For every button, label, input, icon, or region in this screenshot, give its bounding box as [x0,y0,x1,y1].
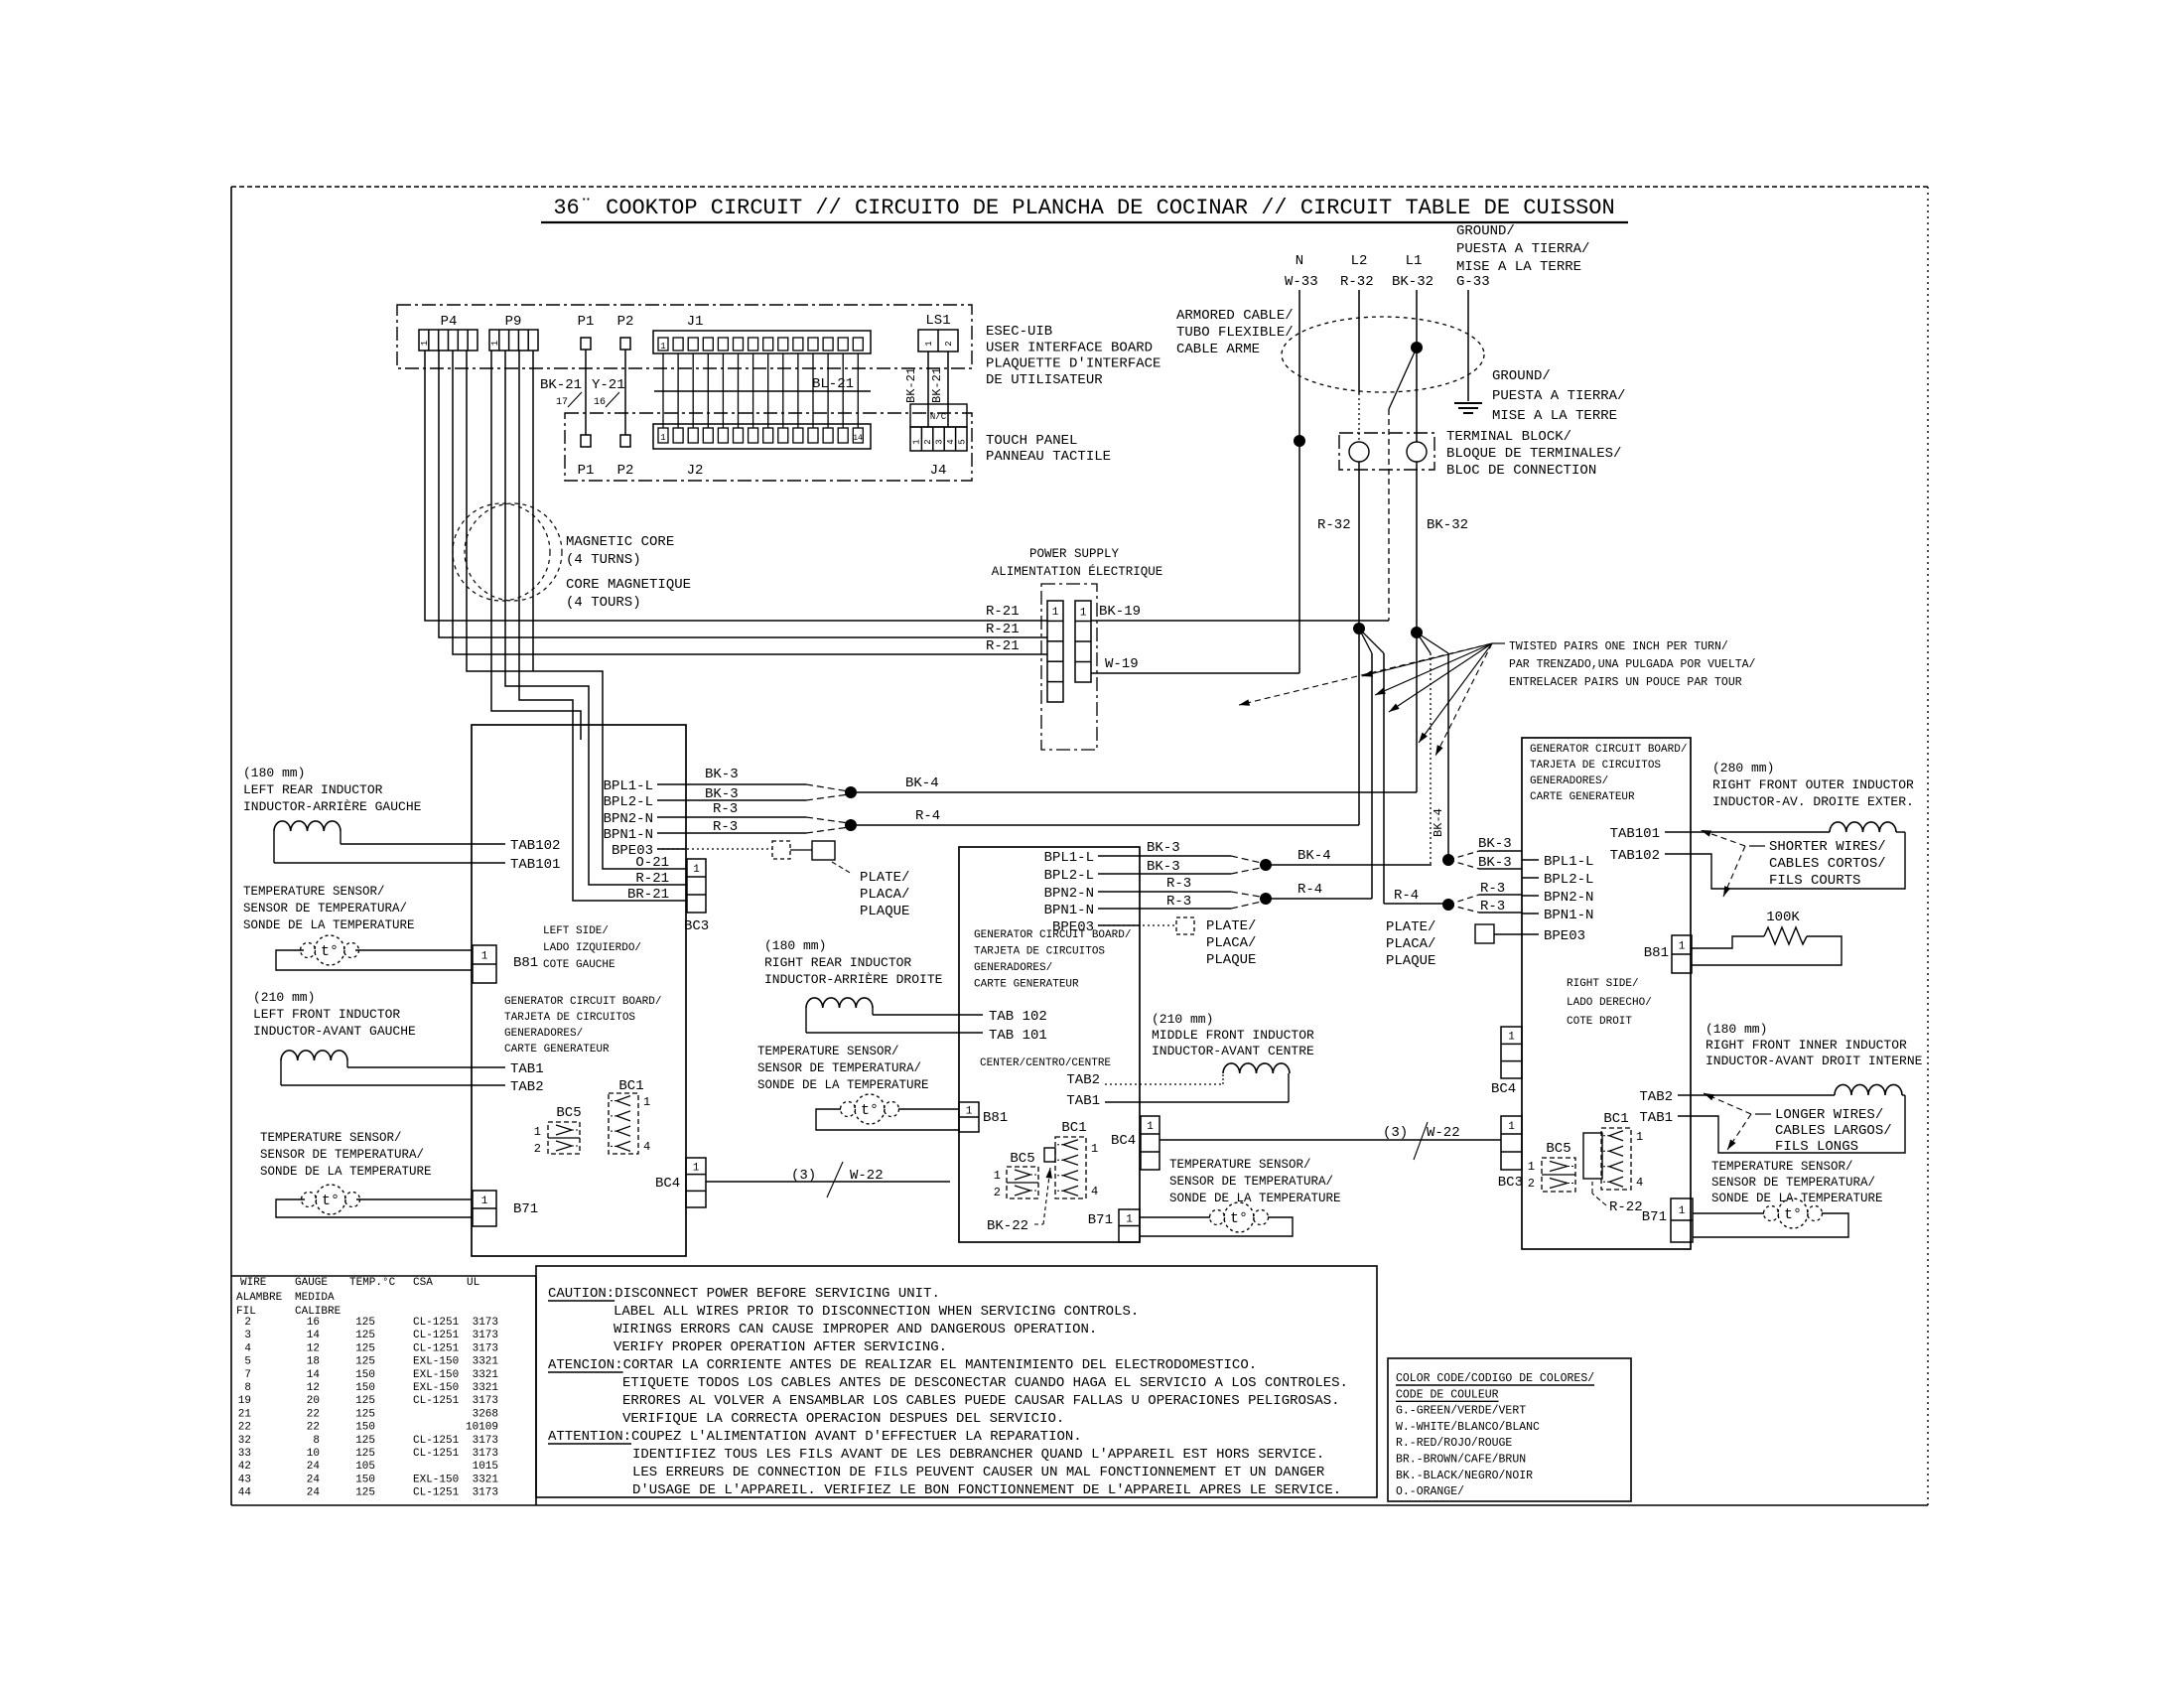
svg-text:LABEL ALL WIRES PRIOR TO DISCO: LABEL ALL WIRES PRIOR TO DISCONNECTION W… [614,1304,1139,1320]
svg-text:BC3: BC3 [1498,1175,1523,1191]
svg-text:BC4: BC4 [655,1176,680,1192]
svg-text:32: 32 [238,1435,251,1447]
svg-text:B71: B71 [1642,1209,1667,1225]
svg-text:W-33: W-33 [1285,274,1318,290]
svg-text:SONDE DE LA TEMPERATURE: SONDE DE LA TEMPERATURE [243,918,415,932]
svg-text:BLOQUE DE TERMINALES/: BLOQUE DE TERMINALES/ [1446,446,1621,462]
svg-text:PANNEAU TACTILE: PANNEAU TACTILE [986,449,1111,465]
svg-text:19: 19 [238,1395,251,1407]
svg-text:R-32: R-32 [1317,517,1351,533]
svg-text:PLAQUE: PLAQUE [860,904,909,919]
svg-text:TAB1: TAB1 [1639,1110,1673,1126]
svg-text:BK-21: BK-21 [904,367,918,403]
svg-text:BK-3: BK-3 [705,786,739,802]
svg-text:Y-21: Y-21 [592,377,625,393]
svg-text:1: 1 [994,1169,1001,1183]
svg-text:RIGHT SIDE/: RIGHT SIDE/ [1567,978,1639,990]
svg-text:PLACA/: PLACA/ [1206,935,1256,951]
svg-text:TEMPERATURE SENSOR/: TEMPERATURE SENSOR/ [260,1131,402,1145]
svg-text:ALIMENTATION ÉLECTRIQUE: ALIMENTATION ÉLECTRIQUE [992,564,1163,579]
svg-text:TEMPERATURE SENSOR/: TEMPERATURE SENSOR/ [1711,1160,1853,1174]
svg-text:16: 16 [594,397,606,408]
svg-text:R-3: R-3 [1480,881,1505,897]
svg-text:4: 4 [1636,1176,1643,1190]
svg-text:1: 1 [1126,1213,1133,1225]
svg-text:R-3: R-3 [1166,876,1191,892]
svg-text:W-19: W-19 [1105,656,1139,672]
svg-text:SONDE DE LA TEMPERATURE: SONDE DE LA TEMPERATURE [1169,1192,1341,1205]
svg-text:BR-21: BR-21 [627,887,669,903]
svg-text:R-21: R-21 [986,622,1020,637]
svg-text:22: 22 [307,1408,320,1420]
svg-text:BPN1-N: BPN1-N [1044,903,1094,918]
svg-text:R-3: R-3 [1166,894,1191,910]
svg-text:BK-4: BK-4 [905,775,939,791]
svg-text:LES ERREURS DE CONNECTION DE F: LES ERREURS DE CONNECTION DE FILS PEUVEN… [632,1465,1325,1480]
svg-text:LADO DERECHO/: LADO DERECHO/ [1567,997,1652,1009]
svg-text:BPN2-N: BPN2-N [1044,886,1094,902]
svg-text:BC1: BC1 [1603,1111,1628,1127]
svg-text:FILS LONGS: FILS LONGS [1775,1139,1858,1155]
svg-text:TOUCH PANEL: TOUCH PANEL [986,433,1077,449]
svg-text:TARJETA DE CIRCUITOS: TARJETA DE CIRCUITOS [974,946,1105,958]
svg-text:4: 4 [946,439,956,444]
svg-text:3173: 3173 [473,1342,498,1354]
svg-text:W.-WHITE/BLANCO/BLANC: W.-WHITE/BLANCO/BLANC [1396,1421,1540,1434]
svg-text:TEMP.°C: TEMP.°C [349,1277,396,1289]
svg-text:PLATE/: PLATE/ [1206,918,1256,934]
svg-text:BPL1-L: BPL1-L [1044,850,1094,866]
svg-text:PLAQUETTE D'INTERFACE: PLAQUETTE D'INTERFACE [986,356,1160,372]
svg-text:PLAQUE: PLAQUE [1386,953,1435,969]
svg-text:12: 12 [307,1382,320,1394]
svg-text:24: 24 [307,1487,321,1499]
svg-text:CL-1251: CL-1251 [413,1435,460,1447]
svg-text:J4: J4 [930,463,947,479]
svg-text:COLOR CODE/CODIGO DE COLORES/: COLOR CODE/CODIGO DE COLORES/ [1396,1372,1594,1385]
svg-text:GENERADORES/: GENERADORES/ [504,1028,583,1040]
svg-text:R-21: R-21 [986,638,1020,654]
svg-text:2: 2 [1528,1177,1535,1191]
svg-text:R-4: R-4 [915,808,940,824]
svg-text:1: 1 [693,1162,700,1174]
svg-text:BPN2-N: BPN2-N [604,811,653,827]
svg-text:3321: 3321 [473,1356,499,1368]
svg-text:COTE DROIT: COTE DROIT [1567,1016,1632,1028]
svg-text:16: 16 [307,1317,320,1329]
svg-text:LEFT REAR INDUCTOR: LEFT REAR INDUCTOR [243,782,383,797]
svg-text:(210 mm): (210 mm) [1152,1012,1213,1027]
svg-text:BPL2-L: BPL2-L [1544,872,1593,888]
svg-text:TAB101: TAB101 [1610,826,1660,842]
svg-text:R.-RED/ROJO/ROUGE: R.-RED/ROJO/ROUGE [1396,1437,1512,1450]
svg-text:125: 125 [355,1448,375,1460]
svg-text:3173: 3173 [473,1395,498,1407]
svg-text:CARTE GENERATEUR: CARTE GENERATEUR [504,1044,610,1055]
svg-text:ESEC-UIB: ESEC-UIB [986,324,1052,340]
svg-text:43: 43 [238,1474,251,1485]
svg-text:ALAMBRE: ALAMBRE [236,1292,283,1304]
svg-text:POWER SUPPLY: POWER SUPPLY [1029,547,1120,561]
svg-text:3321: 3321 [473,1369,499,1381]
svg-text:2: 2 [994,1186,1001,1199]
svg-text:125: 125 [355,1342,375,1354]
svg-text:4: 4 [244,1342,251,1354]
svg-text:1: 1 [1528,1160,1535,1174]
svg-text:PLACA/: PLACA/ [860,887,909,903]
svg-text:8: 8 [244,1382,251,1394]
svg-text:3173: 3173 [473,1330,498,1341]
svg-text:18: 18 [307,1356,320,1368]
svg-text:R-32: R-32 [1340,274,1374,290]
svg-text:EXL-150: EXL-150 [413,1382,459,1394]
svg-text:125: 125 [355,1356,375,1368]
svg-text:INDUCTOR-AVANT GAUCHE: INDUCTOR-AVANT GAUCHE [253,1024,416,1039]
svg-text:P2: P2 [617,314,634,330]
svg-text:N: N [1296,253,1303,269]
svg-text:TAB2: TAB2 [510,1079,544,1095]
svg-text:INDUCTOR-AVANT DROIT INTERNE: INDUCTOR-AVANT DROIT INTERNE [1706,1054,1923,1068]
svg-text:BC5: BC5 [1546,1141,1570,1157]
svg-text:BC5: BC5 [1010,1151,1034,1167]
svg-text:GROUND/: GROUND/ [1492,368,1551,384]
svg-text:2: 2 [534,1142,541,1156]
svg-text:W-22: W-22 [1427,1125,1460,1141]
svg-text:14: 14 [853,434,863,443]
svg-text:BK.-BLACK/NEGRO/NOIR: BK.-BLACK/NEGRO/NOIR [1396,1470,1533,1482]
svg-text:BL-21: BL-21 [812,376,854,392]
svg-text:CARTE GENERATEUR: CARTE GENERATEUR [1530,791,1635,803]
svg-text:(180 mm): (180 mm) [243,766,305,780]
svg-text:1: 1 [1508,1121,1515,1133]
svg-text:14: 14 [307,1369,321,1381]
svg-text:P2: P2 [617,463,634,479]
svg-text:1: 1 [1147,1121,1154,1133]
svg-text:MEDIDA: MEDIDA [295,1292,335,1304]
svg-text:1: 1 [1091,1142,1098,1156]
svg-text:P1: P1 [578,463,595,479]
svg-text:R-4: R-4 [1394,888,1419,904]
svg-text:1: 1 [420,341,430,346]
svg-text:TAB2: TAB2 [1066,1072,1100,1088]
svg-text:INDUCTOR-AV. DROITE EXTER.: INDUCTOR-AV. DROITE EXTER. [1712,794,1914,809]
svg-text:BC4: BC4 [1491,1081,1516,1097]
svg-text:TAB102: TAB102 [1610,848,1660,864]
svg-text:SENSOR DE TEMPERATURA/: SENSOR DE TEMPERATURA/ [1169,1175,1333,1189]
svg-text:22: 22 [307,1422,320,1434]
svg-text:1015: 1015 [473,1461,498,1473]
svg-text:VERIFY PROPER OPERATION AFTER: VERIFY PROPER OPERATION AFTER SERVICING. [614,1339,947,1355]
svg-text:10: 10 [307,1448,320,1460]
svg-text:GROUND/: GROUND/ [1456,223,1515,239]
svg-text:ARMORED CABLE/: ARMORED CABLE/ [1176,308,1294,324]
svg-text:MIDDLE FRONT INDUCTOR: MIDDLE FRONT INDUCTOR [1152,1028,1314,1043]
svg-text:150: 150 [355,1474,375,1485]
svg-text:B71: B71 [513,1201,538,1217]
svg-text:UL: UL [467,1277,479,1289]
svg-text:22: 22 [238,1422,251,1434]
svg-text:COTE GAUCHE: COTE GAUCHE [543,959,615,971]
svg-text:INDUCTOR-ARRIÈRE GAUCHE: INDUCTOR-ARRIÈRE GAUCHE [243,799,422,814]
svg-text:3268: 3268 [473,1408,498,1420]
svg-text:2: 2 [923,439,933,444]
svg-text:MISE A LA TERRE: MISE A LA TERRE [1456,259,1581,275]
svg-text:BC3: BC3 [684,918,709,934]
svg-text:LEFT FRONT INDUCTOR: LEFT FRONT INDUCTOR [253,1007,400,1022]
svg-text:7: 7 [244,1369,251,1381]
svg-text:PAR TRENZADO,UNA PULGADA POR V: PAR TRENZADO,UNA PULGADA POR VUELTA/ [1509,658,1756,671]
svg-text:BK-22: BK-22 [987,1218,1028,1234]
svg-text:FILS COURTS: FILS COURTS [1769,873,1860,889]
svg-text:PLAQUE: PLAQUE [1206,952,1256,968]
svg-text:L2: L2 [1351,253,1368,269]
svg-text:1: 1 [924,341,934,346]
svg-text:GENERATOR CIRCUIT BOARD/: GENERATOR CIRCUIT BOARD/ [504,996,661,1008]
svg-text:WIRINGS ERRORS CAN CAUSE IMPRO: WIRINGS ERRORS CAN CAUSE IMPROPER AND DA… [614,1322,1097,1337]
svg-text:MISE A LA TERRE: MISE A LA TERRE [1492,408,1617,424]
svg-text:125: 125 [355,1408,375,1420]
svg-text:R-3: R-3 [1480,899,1505,914]
svg-text:BC1: BC1 [1061,1120,1086,1136]
svg-text:N/C: N/C [930,412,947,422]
svg-text:D'USAGE DE L'APPAREIL. VERIFIE: D'USAGE DE L'APPAREIL. VERIFIEZ LE BON F… [632,1482,1341,1498]
svg-text:W-22: W-22 [850,1168,884,1184]
svg-text:G-33: G-33 [1456,274,1490,290]
svg-text:5: 5 [957,439,967,444]
svg-text:BPL1-L: BPL1-L [1544,854,1593,870]
svg-text:3321: 3321 [473,1382,499,1394]
svg-text:1: 1 [534,1125,541,1139]
svg-text:BK-3: BK-3 [1478,855,1512,871]
svg-text:t°: t° [1230,1210,1248,1227]
svg-text:BK-4: BK-4 [1432,808,1445,837]
svg-text:SONDE DE LA TEMPERATURE: SONDE DE LA TEMPERATURE [757,1078,929,1092]
svg-text:P1: P1 [578,314,595,330]
svg-text:TAB1: TAB1 [1066,1093,1100,1109]
svg-text:3173: 3173 [473,1317,498,1329]
svg-text:1: 1 [660,342,665,352]
svg-text:1: 1 [660,433,665,443]
svg-text:EXL-150: EXL-150 [413,1369,459,1381]
svg-text:(180 mm): (180 mm) [764,938,826,953]
svg-text:TAB 101: TAB 101 [989,1028,1047,1044]
svg-text:TARJETA DE CIRCUITOS: TARJETA DE CIRCUITOS [504,1012,635,1024]
svg-text:CAUTION:DISCONNECT POWER BEFOR: CAUTION:DISCONNECT POWER BEFORE SERVICIN… [548,1286,940,1302]
svg-text:MAGNETIC CORE: MAGNETIC CORE [566,534,674,550]
svg-text:t°: t° [1784,1206,1802,1223]
svg-text:CL-1251: CL-1251 [413,1330,460,1341]
svg-text:LEFT SIDE/: LEFT SIDE/ [543,925,609,937]
svg-text:4: 4 [643,1140,650,1154]
svg-text:(3): (3) [791,1168,816,1184]
svg-text:BK-3: BK-3 [1147,840,1180,856]
svg-text:EXL-150: EXL-150 [413,1474,459,1485]
svg-text:SENSOR DE TEMPERATURA/: SENSOR DE TEMPERATURA/ [1711,1176,1875,1190]
svg-text:BK-21: BK-21 [540,377,582,393]
svg-text:INDUCTOR-AVANT CENTRE: INDUCTOR-AVANT CENTRE [1152,1044,1314,1058]
svg-text:1: 1 [966,1106,973,1118]
svg-text:SENSOR DE TEMPERATURA/: SENSOR DE TEMPERATURA/ [757,1061,921,1075]
svg-text:CL-1251: CL-1251 [413,1448,460,1460]
svg-text:1: 1 [1636,1130,1643,1144]
svg-text:36¨ COOKTOP CIRCUIT // CIRCUIT: 36¨ COOKTOP CIRCUIT // CIRCUITO DE PLANC… [553,196,1614,220]
svg-text:DE UTILISATEUR: DE UTILISATEUR [986,372,1103,388]
svg-text:B81: B81 [983,1110,1008,1126]
svg-text:CABLE ARME: CABLE ARME [1176,342,1260,357]
svg-text:125: 125 [355,1487,375,1499]
svg-text:RIGHT FRONT OUTER INDUCTOR: RIGHT FRONT OUTER INDUCTOR [1712,777,1914,792]
svg-text:1: 1 [1080,607,1087,619]
svg-text:3321: 3321 [473,1474,499,1485]
svg-text:42: 42 [238,1461,251,1473]
svg-text:(4 TURNS): (4 TURNS) [566,552,641,568]
svg-text:ENTRELACER PAIRS UN POUCE PAR: ENTRELACER PAIRS UN POUCE PAR TOUR [1509,676,1742,689]
svg-text:ATTENTION:COUPEZ L'ALIMENTATIO: ATTENTION:COUPEZ L'ALIMENTATION AVANT D'… [548,1429,1082,1445]
svg-text:CL-1251: CL-1251 [413,1395,460,1407]
svg-text:J1: J1 [687,314,704,330]
svg-text:L1: L1 [1406,253,1423,269]
svg-text:125: 125 [355,1330,375,1341]
svg-text:GENERATOR CIRCUIT BOARD/: GENERATOR CIRCUIT BOARD/ [974,929,1131,941]
svg-text:CL-1251: CL-1251 [413,1487,460,1499]
svg-text:J2: J2 [687,463,704,479]
svg-text:BK-3: BK-3 [705,767,739,782]
svg-text:TARJETA DE CIRCUITOS: TARJETA DE CIRCUITOS [1530,760,1661,772]
svg-text:EXL-150: EXL-150 [413,1356,459,1368]
svg-text:1: 1 [490,341,500,346]
svg-text:BPL2-L: BPL2-L [604,794,653,810]
svg-text:SHORTER WIRES/: SHORTER WIRES/ [1769,839,1886,855]
svg-text:3173: 3173 [473,1448,498,1460]
svg-text:BK-4: BK-4 [1297,848,1331,864]
svg-text:105: 105 [355,1461,375,1473]
svg-text:PUESTA A TIERRA/: PUESTA A TIERRA/ [1456,241,1589,257]
svg-text:VERIFIQUE LA CORRECTA OPERACIO: VERIFIQUE LA CORRECTA OPERACION DESPUES … [622,1411,1064,1427]
svg-text:150: 150 [355,1422,375,1434]
svg-text:1: 1 [1679,1205,1686,1217]
svg-text:BK-3: BK-3 [1478,836,1512,852]
svg-text:5: 5 [244,1356,251,1368]
svg-text:1: 1 [643,1095,650,1109]
svg-text:2: 2 [244,1317,251,1329]
svg-text:O.-ORANGE/: O.-ORANGE/ [1396,1485,1464,1498]
svg-text:BPN2-N: BPN2-N [1544,890,1593,906]
svg-text:BPL1-L: BPL1-L [604,778,653,794]
svg-text:PLATE/: PLATE/ [860,870,909,886]
svg-text:BLOC DE CONNECTION: BLOC DE CONNECTION [1446,463,1596,479]
svg-text:B81: B81 [1644,945,1669,961]
svg-text:R-22: R-22 [1609,1199,1643,1215]
svg-text:t°: t° [321,943,339,960]
svg-text:33: 33 [238,1448,251,1460]
svg-text:CODE DE COULEUR: CODE DE COULEUR [1396,1388,1499,1401]
svg-text:100K: 100K [1766,910,1800,925]
svg-text:10109: 10109 [466,1422,498,1434]
svg-text:B71: B71 [1088,1212,1113,1228]
svg-text:R-21: R-21 [986,604,1020,620]
svg-text:CARTE GENERATEUR: CARTE GENERATEUR [974,979,1079,991]
svg-text:TWISTED PAIRS ONE INCH PER TUR: TWISTED PAIRS ONE INCH PER TURN/ [1509,640,1728,653]
svg-text:ATENCION:CORTAR LA CORRIENTE A: ATENCION:CORTAR LA CORRIENTE ANTES DE RE… [548,1357,1257,1373]
svg-text:3: 3 [244,1330,251,1341]
svg-text:RIGHT REAR INDUCTOR: RIGHT REAR INDUCTOR [764,955,911,970]
svg-text:TAB 102: TAB 102 [989,1009,1047,1025]
svg-text:1: 1 [481,951,488,963]
svg-text:BPN1-N: BPN1-N [604,827,653,843]
svg-text:CENTER/CENTRO/CENTRE: CENTER/CENTRO/CENTRE [980,1057,1111,1069]
svg-text:BK-32: BK-32 [1427,517,1468,533]
svg-text:BPL2-L: BPL2-L [1044,868,1094,884]
svg-text:PUESTA A TIERRA/: PUESTA A TIERRA/ [1492,388,1625,404]
svg-text:125: 125 [355,1395,375,1407]
svg-text:12: 12 [307,1342,320,1354]
svg-text:BPE03: BPE03 [1544,928,1585,944]
svg-text:BC4: BC4 [1111,1133,1136,1149]
svg-text:LS1: LS1 [925,313,950,329]
svg-text:PLACA/: PLACA/ [1386,936,1435,952]
svg-text:24: 24 [307,1461,321,1473]
svg-text:ERRORES AL VOLVER A ENSAMBLAR: ERRORES AL VOLVER A ENSAMBLAR LOS CABLES… [622,1393,1340,1409]
svg-text:SONDE DE LA TEMPERATURE: SONDE DE LA TEMPERATURE [260,1165,432,1179]
svg-text:R-3: R-3 [713,801,738,817]
svg-text:P4: P4 [441,314,458,330]
svg-text:125: 125 [355,1435,375,1447]
svg-text:BK-3: BK-3 [1147,859,1180,875]
svg-text:3173: 3173 [473,1487,498,1499]
svg-text:LONGER WIRES/: LONGER WIRES/ [1775,1107,1883,1123]
svg-text:LADO IZQUIERDO/: LADO IZQUIERDO/ [543,942,641,954]
svg-text:O-21: O-21 [635,855,669,871]
svg-text:21: 21 [238,1408,252,1420]
svg-text:PLATE/: PLATE/ [1386,919,1435,935]
svg-text:INDUCTOR-ARRIÈRE DROITE: INDUCTOR-ARRIÈRE DROITE [764,972,943,987]
svg-text:BK-19: BK-19 [1099,604,1141,620]
svg-text:4: 4 [1091,1185,1098,1198]
svg-text:(4 TOURS): (4 TOURS) [566,595,641,611]
svg-text:BK-21: BK-21 [930,367,944,403]
svg-text:(280 mm): (280 mm) [1712,761,1774,775]
svg-text:14: 14 [307,1330,321,1341]
svg-text:20: 20 [307,1395,320,1407]
svg-text:TAB2: TAB2 [1639,1089,1673,1105]
svg-text:G.-GREEN/VERDE/VERT: G.-GREEN/VERDE/VERT [1396,1405,1526,1418]
svg-text:1: 1 [481,1196,488,1207]
svg-text:CORE MAGNETIQUE: CORE MAGNETIQUE [566,577,691,593]
svg-text:(3): (3) [1383,1125,1408,1141]
svg-text:BC5: BC5 [556,1105,581,1121]
svg-text:TEMPERATURE SENSOR/: TEMPERATURE SENSOR/ [1169,1158,1311,1172]
svg-text:BK-32: BK-32 [1392,274,1433,290]
svg-text:R-21: R-21 [635,871,669,887]
svg-text:BC1: BC1 [618,1078,643,1094]
svg-text:8: 8 [313,1435,320,1447]
svg-text:GENERATOR CIRCUIT BOARD/: GENERATOR CIRCUIT BOARD/ [1530,744,1687,756]
svg-text:1: 1 [1052,607,1059,619]
svg-text:GENERADORES/: GENERADORES/ [974,962,1052,974]
svg-text:TAB101: TAB101 [510,857,560,873]
svg-text:24: 24 [307,1474,321,1485]
svg-text:CL-1251: CL-1251 [413,1342,460,1354]
svg-text:150: 150 [355,1369,375,1381]
svg-text:R-4: R-4 [1297,882,1322,898]
svg-text:USER INTERFACE BOARD: USER INTERFACE BOARD [986,340,1153,355]
svg-text:CSA: CSA [413,1277,433,1289]
svg-text:3173: 3173 [473,1435,498,1447]
svg-text:BPN1-N: BPN1-N [1544,908,1593,923]
svg-text:125: 125 [355,1317,375,1329]
svg-text:150: 150 [355,1382,375,1394]
svg-text:TERMINAL BLOCK/: TERMINAL BLOCK/ [1446,429,1571,445]
